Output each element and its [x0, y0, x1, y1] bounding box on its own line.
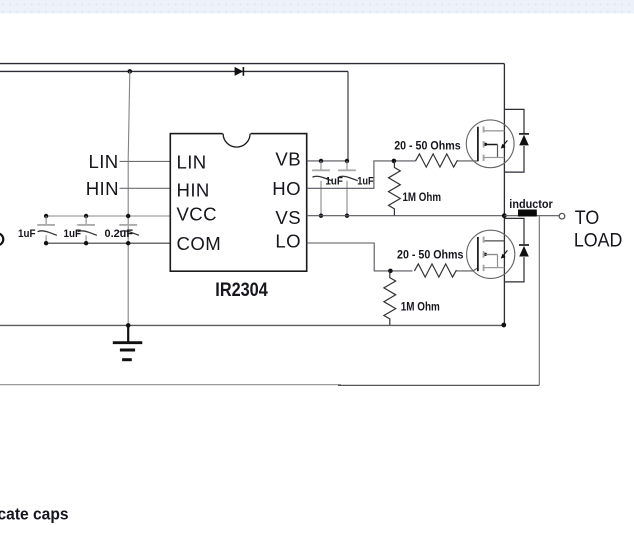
wire VCC bootstrap rail: [0, 70, 348, 72]
wire bootstrap drop to VB: [347, 71, 349, 160]
diode D3 body diode Q2: [504, 218, 529, 282]
node ground rail to bus: [501, 323, 506, 328]
svg-text:HO: HO: [272, 178, 301, 199]
wire VCC vertical drop: [128, 71, 130, 325]
ground symbol: [113, 325, 143, 359]
wire COM line to IC: [46, 242, 170, 244]
wire R1 to Q1 gate: [458, 160, 478, 162]
resistor R4 1M Ohm: [384, 271, 396, 326]
svg-text:VS: VS: [275, 207, 301, 228]
transistor Q1 high-side MOSFET: [466, 120, 514, 168]
wire R3 to Q2 gate: [456, 268, 478, 271]
wire high-side bus: [503, 64, 505, 325]
svg-text:COM: COM: [177, 233, 222, 254]
svg-text:0.2uF: 0.2uF: [105, 228, 134, 240]
svg-text:1uF: 1uF: [18, 228, 36, 240]
svg-text:HIN: HIN: [86, 178, 119, 199]
connector stub at left edge: [0, 233, 3, 245]
svg-text:VCC: VCC: [177, 204, 217, 225]
node switch node: [502, 213, 507, 218]
svg-text:LIN: LIN: [177, 151, 207, 172]
IC U1 IR2304 body: [170, 132, 306, 271]
node VB cap1: [319, 159, 323, 163]
resistor R1 20-50 Ohms: [416, 154, 458, 167]
wire HIN input: [120, 187, 171, 189]
capacitor C5 1uF bootstrap: [338, 161, 358, 218]
svg-text:LIN: LIN: [89, 151, 119, 172]
capacitor C2 1uF: [77, 214, 97, 246]
resistor R3 20-50 Ohms: [414, 264, 456, 277]
node junction VCC rail: [128, 69, 133, 74]
wire LIN input: [120, 160, 171, 162]
wire VCC line to IC: [46, 215, 170, 217]
svg-text:LOAD: LOAD: [574, 230, 623, 251]
terminal to load: [559, 213, 565, 219]
svg-text:IR2304: IR2304: [215, 279, 268, 301]
node gate R3 junction: [388, 269, 393, 274]
wire bottom return right segment: [338, 384, 539, 386]
node ground junction: [126, 323, 131, 328]
capacitor C4 1uF bootstrap: [312, 161, 332, 218]
inductor L1: [518, 210, 537, 217]
wire load return branch: [538, 216, 540, 386]
svg-text:cate caps: cate caps: [0, 504, 69, 523]
capacitor C1 1uF: [37, 214, 57, 246]
resistor R2 1M Ohm: [389, 161, 401, 216]
transistor Q2 low-side MOSFET: [467, 230, 515, 278]
wire LO pin: [307, 243, 413, 271]
capacitor C3 0.2uF: [119, 214, 139, 246]
svg-text:1uF: 1uF: [325, 175, 343, 187]
diode D1 bootstrap: [235, 67, 244, 76]
svg-text:VB: VB: [275, 149, 301, 170]
node VB cap2: [345, 159, 349, 163]
wire VB pin: [307, 160, 348, 162]
svg-text:inductor: inductor: [509, 197, 553, 211]
svg-text:TO: TO: [575, 208, 600, 229]
svg-text:20 - 50 Ohms: 20 - 50 Ohms: [397, 250, 464, 262]
wire HO pin: [307, 161, 416, 188]
svg-text:1uF: 1uF: [64, 228, 82, 240]
wire VS pin to switch node: [307, 215, 505, 217]
diode D2 body diode Q1: [504, 109, 529, 172]
svg-text:1M Ohm: 1M Ohm: [401, 301, 440, 313]
svg-text:LO: LO: [275, 230, 301, 251]
svg-text:1uF: 1uF: [357, 175, 374, 187]
top toolbar strip: [0, 0, 634, 14]
wire switch node to load: [504, 215, 559, 217]
svg-text:1M Ohm: 1M Ohm: [403, 192, 442, 204]
svg-text:HIN: HIN: [177, 179, 210, 200]
wire bottom return left segment: [0, 384, 341, 386]
label TO LOAD: [574, 208, 623, 252]
svg-text:20 - 50 Ohms: 20 - 50 Ohms: [394, 141, 461, 153]
node gate R1 junction: [392, 159, 397, 164]
ground rail: [0, 324, 504, 326]
wire top supply rail: [0, 63, 504, 65]
